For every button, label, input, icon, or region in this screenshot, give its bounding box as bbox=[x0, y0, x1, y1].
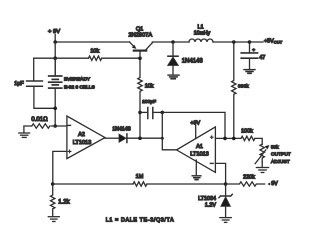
wire shunt to A2 inverting input bbox=[51, 125, 67, 127]
wire node X to A1 positive input run bbox=[162, 112, 225, 138]
value label 10k bbox=[90, 48, 99, 54]
svg-text:1M: 1M bbox=[136, 174, 144, 180]
label Q1 bbox=[136, 27, 143, 33]
node 9V bias terminal bbox=[267, 181, 278, 187]
value label 50k bbox=[271, 145, 279, 150]
wire A1 negative input bbox=[215, 163, 225, 184]
svg-text:10k: 10k bbox=[145, 84, 154, 90]
wire A2 non-inverting input bbox=[53, 151, 67, 184]
battery B1 plates bbox=[49, 76, 62, 88]
resistor 1.2k vertical bbox=[51, 184, 55, 216]
diode D 1N4148 (A2 output) bbox=[119, 134, 127, 143]
pin label A2 minus bbox=[68, 124, 71, 126]
transistor Q1 base bar bbox=[134, 49, 146, 51]
svg-text:10k: 10k bbox=[90, 48, 99, 54]
value label 390k bbox=[238, 83, 249, 89]
svg-text:ADJUST: ADJUST bbox=[271, 159, 290, 165]
node +5VOUT terminal bbox=[264, 38, 283, 44]
pin label A2 plus bbox=[68, 150, 71, 153]
wire feedback rail left segment y=184 bbox=[53, 183, 133, 185]
label A2 bbox=[78, 132, 85, 138]
wire A2 output bbox=[105, 137, 119, 139]
svg-text:A2: A2 bbox=[78, 132, 85, 138]
wire emitter rail y=42 bbox=[55, 41, 129, 43]
node junction dot X bbox=[161, 137, 164, 140]
resistor 1M bbox=[133, 182, 147, 186]
wire node X down to A1 output bbox=[162, 112, 177, 149]
node junction dot 47uF top bbox=[248, 40, 252, 44]
value label 100k bbox=[241, 129, 253, 135]
wire feedback rail right segment bbox=[147, 183, 226, 185]
value label 10mHy bbox=[194, 31, 211, 37]
value label 1M bbox=[136, 174, 144, 180]
wire collector rail to L1 bbox=[152, 41, 189, 43]
svg-text:47: 47 bbox=[259, 55, 265, 61]
node junction dot A1 pos / 100pF run bbox=[223, 137, 227, 141]
potentiometer 50k vertical bbox=[260, 144, 264, 162]
value label 1.2k bbox=[58, 199, 70, 205]
node junction dot 9V/emitter bbox=[53, 40, 57, 44]
diode LT1034 1.2V reference bbox=[219, 184, 232, 217]
svg-text:100pF: 100pF bbox=[142, 99, 156, 105]
transistor Q1 base lead bbox=[139, 52, 141, 59]
node junction dot 390k top bbox=[232, 40, 236, 44]
value label 47 bbox=[259, 55, 265, 61]
label A1 bbox=[196, 144, 203, 150]
transistor Q1 2N2907A base resistor 10k vertical bbox=[138, 58, 142, 112]
svg-text:+: + bbox=[252, 48, 255, 53]
battery B1 EVEREADY top stub bbox=[54, 58, 56, 76]
svg-text:L1 = DALE TE-3/Q3/TA: L1 = DALE TE-3/Q3/TA bbox=[106, 218, 175, 224]
label LT1013 (A1) bbox=[190, 152, 209, 158]
wire 10k to diode node bbox=[139, 112, 141, 138]
resistor 100k bbox=[241, 136, 255, 140]
svg-text:2N2907A: 2N2907A bbox=[128, 33, 152, 39]
label LT1013 (A2) bbox=[73, 140, 92, 146]
label L1 bbox=[197, 25, 203, 31]
wire +9V stub bbox=[54, 35, 56, 43]
resistor 0.01 ohm shunt bbox=[32, 124, 50, 128]
svg-text:50k: 50k bbox=[271, 145, 279, 150]
svg-text:1N4148: 1N4148 bbox=[112, 127, 130, 133]
pin label A1 plus bbox=[210, 136, 213, 139]
svg-text:1.2k: 1.2k bbox=[58, 199, 70, 205]
svg-text:LT1013: LT1013 bbox=[190, 152, 209, 158]
node junction dot 9V/base rail bbox=[53, 56, 57, 60]
capacitor 47uF output bbox=[241, 42, 257, 69]
value label 0.01ohm bbox=[31, 117, 48, 123]
node junction dot battery/1uF bbox=[53, 107, 57, 111]
node junction dot reference bbox=[224, 182, 228, 186]
op-amp A2 LT1013 triangle bbox=[67, 116, 105, 159]
ground catch diode bbox=[168, 75, 179, 79]
svg-text:LT1034: LT1034 bbox=[198, 196, 216, 202]
svg-text:100k: 100k bbox=[241, 129, 253, 135]
wire output rail bbox=[213, 41, 263, 43]
svg-text:A1: A1 bbox=[196, 144, 203, 150]
svg-text:1μF: 1μF bbox=[14, 81, 24, 87]
wire A1 positive input bbox=[215, 137, 241, 139]
ground LT1034 bbox=[220, 218, 231, 223]
value label 1N4148 (catch diode) bbox=[182, 59, 204, 65]
node junction dot 100pF left bbox=[138, 111, 142, 115]
wire A1 supply stub bbox=[195, 126, 197, 139]
node +9V supply label bbox=[48, 29, 60, 35]
capacitor 1uF plates bbox=[27, 81, 43, 86]
wire base rail left segment y=58 bbox=[34, 57, 89, 59]
svg-text:10mHy: 10mHy bbox=[194, 31, 211, 37]
battery label EVEREADY bbox=[64, 77, 91, 83]
wire shunt left + ground drop bbox=[24, 126, 32, 133]
capacitor 100pF bbox=[140, 108, 162, 119]
wire 1uF bottom stub bbox=[34, 86, 55, 108]
transistor Q1 emitter arrow bbox=[130, 42, 136, 48]
svg-text:1.2V: 1.2V bbox=[205, 202, 216, 208]
value label 100pF bbox=[142, 99, 156, 105]
op-amp A1 LT1013 triangle (points left) bbox=[177, 127, 216, 172]
svg-text:LT1013: LT1013 bbox=[73, 140, 92, 146]
svg-text:E-92 6 CELLS: E-92 6 CELLS bbox=[64, 85, 95, 91]
label 2N2907A bbox=[128, 33, 152, 39]
wire 100k to pot bbox=[255, 138, 262, 144]
node junction dot base rail bbox=[138, 56, 142, 60]
value label 1uF bbox=[14, 81, 24, 87]
wire pot to ground bbox=[261, 162, 263, 167]
svg-text:220k: 220k bbox=[243, 175, 255, 181]
diode D 1N4148 catch bbox=[168, 42, 179, 75]
ground shunt bbox=[19, 133, 30, 137]
battery label E-92 6 CELLS bbox=[64, 85, 95, 91]
svg-text:Q1: Q1 bbox=[136, 27, 143, 33]
wire battery bottom bbox=[54, 88, 56, 126]
ground below 1.2k bbox=[48, 217, 59, 222]
svg-text:390k: 390k bbox=[238, 83, 249, 89]
wire 9V vertical to battery bbox=[54, 42, 56, 76]
value label 1N4148 (A2 output diode) bbox=[112, 127, 130, 133]
svg-text:OUTPUT: OUTPUT bbox=[271, 152, 291, 158]
resistor 390k vertical bbox=[232, 42, 236, 138]
wire diode to node X bbox=[127, 137, 162, 139]
potentiometer wiper arrow bbox=[255, 145, 269, 163]
label OUTPUT bbox=[271, 152, 291, 158]
resistor 10k horizontal bbox=[89, 56, 102, 60]
transistor Q1 collector bbox=[146, 43, 152, 50]
node junction dot battery/shunt bbox=[53, 124, 57, 128]
svg-text:9V: 9V bbox=[271, 181, 278, 187]
value label 220k bbox=[243, 175, 255, 181]
resistor 220k bbox=[226, 182, 265, 186]
svg-text:+ 9V: + 9V bbox=[48, 29, 60, 35]
svg-text:EVEREADY: EVEREADY bbox=[64, 77, 91, 83]
capacitor C 1uF top stub bbox=[33, 58, 35, 81]
value label 10k (vertical) bbox=[145, 84, 154, 90]
pin label A1 minus bbox=[210, 162, 213, 164]
svg-text:1N4148: 1N4148 bbox=[182, 59, 204, 65]
wire A1 ground stub bbox=[195, 160, 197, 175]
svg-text:+5VOUT: +5VOUT bbox=[264, 38, 283, 44]
svg-text:0.01Ω: 0.01Ω bbox=[31, 117, 48, 123]
value label 1.2V bbox=[205, 202, 216, 208]
inductor L1 10mHy bbox=[189, 39, 213, 42]
note L1 = DALE TE-3/Q3/TA bbox=[106, 218, 175, 224]
label ADJUST bbox=[271, 159, 290, 165]
node junction dot A1 pos / 390k bbox=[232, 137, 236, 141]
ground pot bbox=[256, 168, 268, 173]
node junction dot feedback rail left bbox=[51, 182, 55, 186]
ground 47uF bbox=[244, 70, 255, 74]
wire base rail right segment bbox=[102, 57, 140, 59]
node junction dot 100pF right bbox=[161, 111, 165, 115]
node junction dot catch diode bbox=[171, 40, 175, 44]
ground A1 bbox=[192, 176, 201, 180]
label +9V (A1 supply) bbox=[190, 121, 200, 127]
label LT1034 bbox=[198, 196, 216, 202]
node junction dot base-drive/diode bbox=[138, 136, 142, 140]
